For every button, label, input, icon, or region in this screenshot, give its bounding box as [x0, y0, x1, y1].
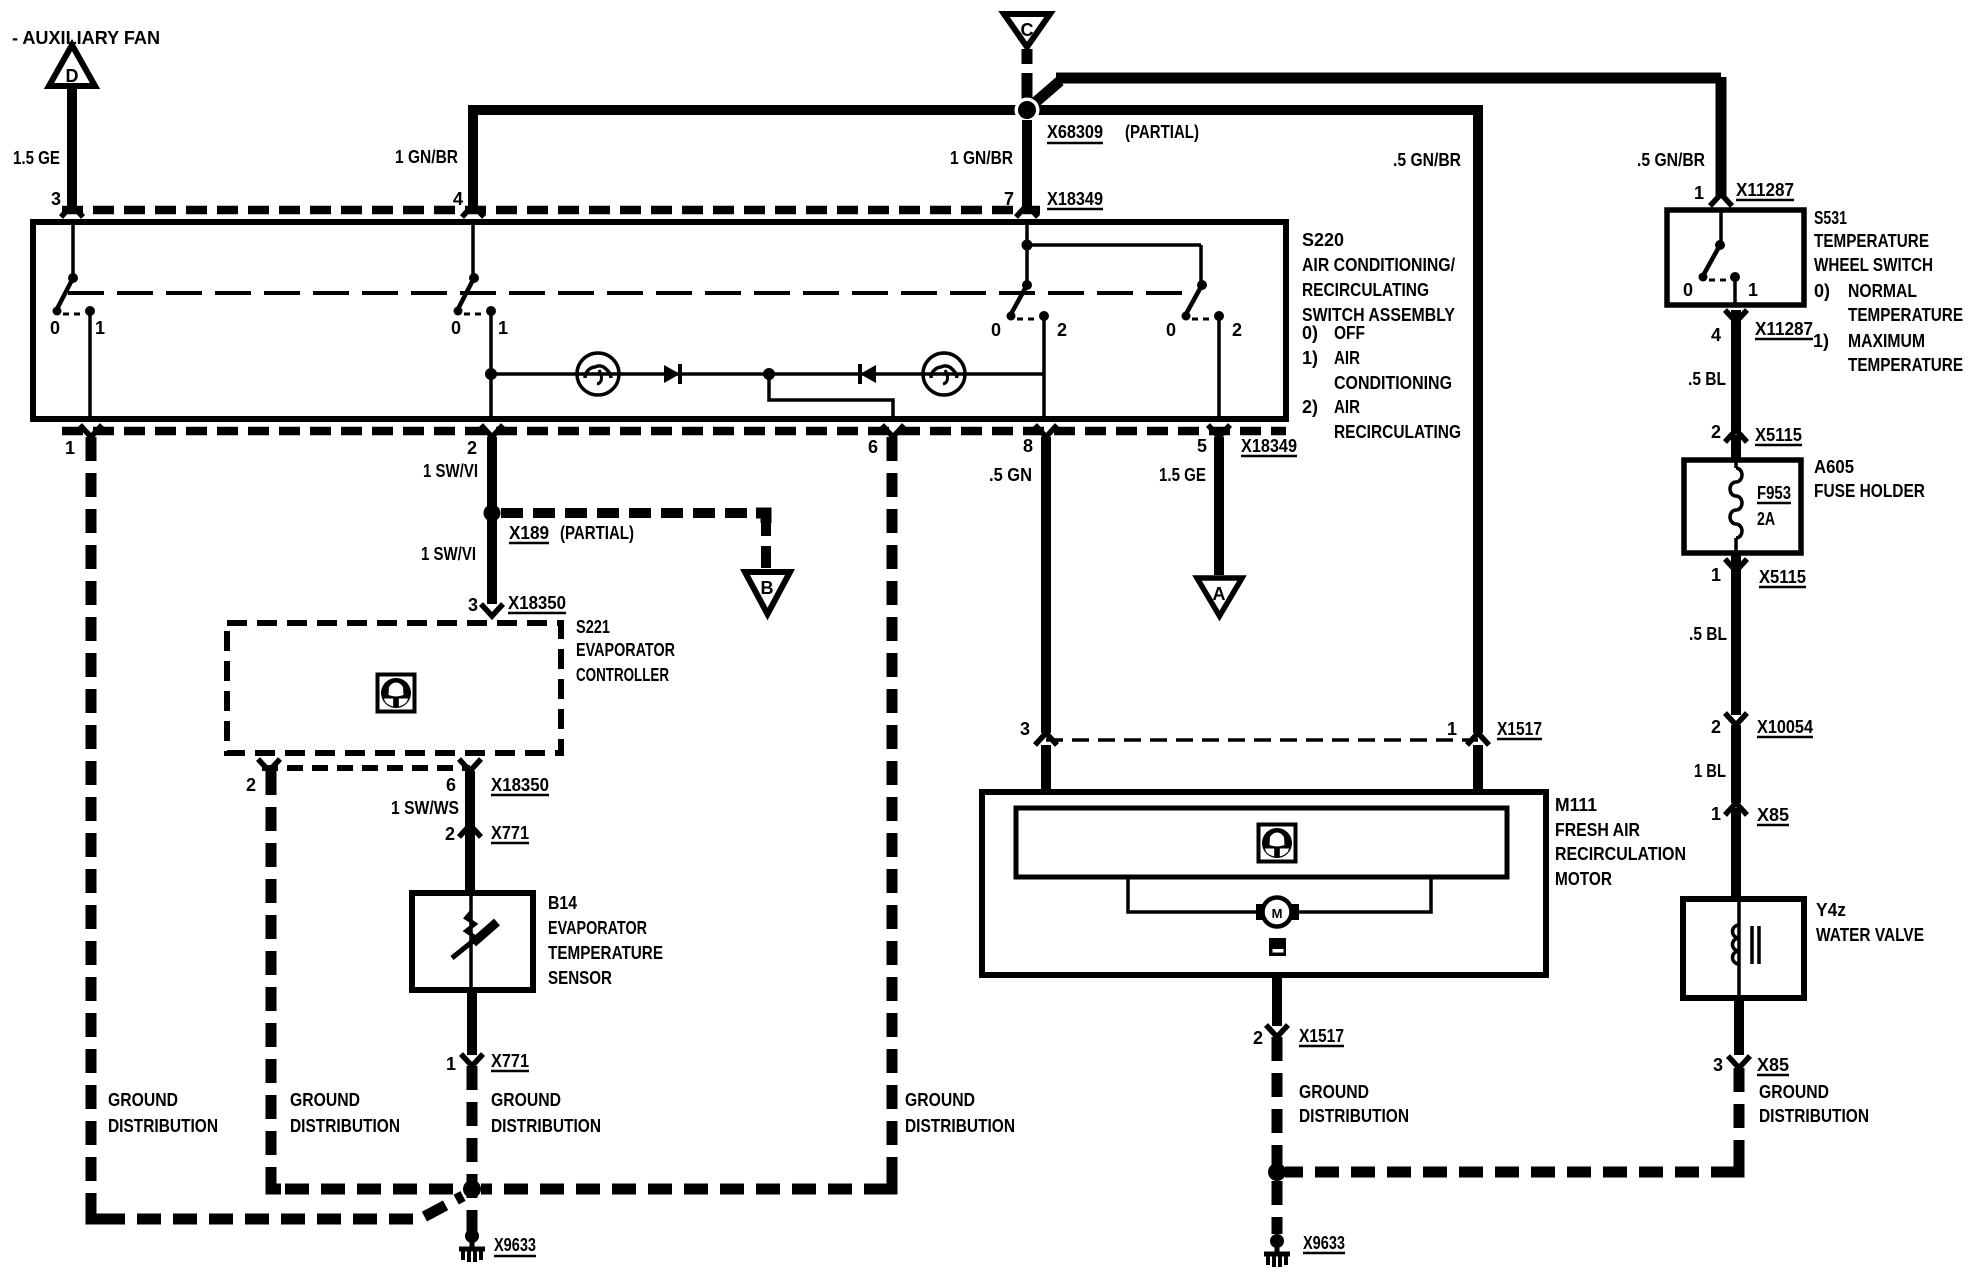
svg-text:5: 5: [1197, 436, 1207, 456]
Y4z solenoid element: [1737, 902, 1741, 995]
svg-text:NORMAL: NORMAL: [1848, 281, 1917, 301]
fan icon M111: [1259, 825, 1296, 862]
switch S220-3 input line: [1025, 225, 1029, 285]
svg-text:GROUND: GROUND: [108, 1090, 178, 1110]
svg-text:WHEEL SWITCH: WHEEL SWITCH: [1814, 255, 1933, 275]
wire contact 2 to pin 5: [1217, 316, 1221, 419]
node inner rail: [1022, 240, 1033, 251]
diode V1: [664, 365, 680, 383]
switch S220-3 lever: [1011, 285, 1027, 314]
svg-text:SWITCH ASSEMBLY: SWITCH ASSEMBLY: [1302, 305, 1455, 325]
ground junction node: [463, 1180, 481, 1198]
B14 internal element: [469, 896, 473, 987]
wire into fuse holder: [1731, 435, 1741, 459]
svg-text:X18350: X18350: [491, 775, 549, 795]
svg-text:2: 2: [1253, 1028, 1263, 1048]
svg-text:X1517: X1517: [1497, 719, 1542, 739]
svg-text:S220: S220: [1302, 230, 1344, 250]
node X189 branch: [484, 505, 501, 522]
svg-text:2): 2): [1302, 397, 1318, 417]
svg-text:.5 BL: .5 BL: [1689, 624, 1727, 644]
svg-text:X1517: X1517: [1299, 1026, 1344, 1046]
svg-text:1: 1: [1447, 719, 1457, 739]
switch S220-4 lever: [1186, 285, 1202, 314]
ground wire corner patch: [1729, 1162, 1739, 1172]
wire 1 GN/BR horizontal run: [473, 110, 1478, 733]
switch S531 contact gap dash: [1709, 279, 1729, 282]
svg-text:EVAPORATOR: EVAPORATOR: [576, 640, 675, 660]
mechanical coupling dashed line: [68, 291, 1190, 295]
svg-text:X68309: X68309: [1047, 122, 1103, 142]
svg-text:DISTRIBUTION: DISTRIBUTION: [290, 1116, 400, 1136]
switch S220-4 contact 2: [1214, 311, 1224, 321]
svg-text:A605: A605: [1814, 457, 1854, 477]
svg-text:TEMPERATURE: TEMPERATURE: [1848, 355, 1963, 375]
svg-text:3: 3: [51, 189, 61, 209]
svg-text:0: 0: [991, 320, 1001, 340]
connector line X1517 top: [1046, 738, 1478, 742]
svg-text:2: 2: [1232, 320, 1242, 340]
switch S220-1 contact 1: [85, 306, 95, 316]
switch S220-1 lever: [57, 278, 73, 309]
svg-text:X9633: X9633: [1303, 1233, 1345, 1253]
wire pin 8 to M111 pin 3: [1041, 437, 1051, 733]
switch S220-3 contact 0: [1007, 312, 1016, 321]
svg-text:1: 1: [95, 318, 105, 338]
svg-text:1 GN/BR: 1 GN/BR: [950, 148, 1013, 168]
wire X5115 to X10054: [1731, 571, 1741, 715]
wire M111 to pin 2 X1517: [1272, 975, 1282, 1026]
svg-text:X85: X85: [1757, 1055, 1789, 1075]
svg-text:S531: S531: [1814, 208, 1847, 228]
diode V2: [858, 364, 862, 384]
wire 1.5 GE: [67, 87, 77, 206]
svg-text:TEMPERATURE: TEMPERATURE: [548, 943, 663, 963]
lamp EL1: [577, 353, 619, 395]
lamp EL2: [923, 353, 965, 395]
svg-text:AIR: AIR: [1334, 348, 1360, 368]
wire contact 1 to pin 2: [489, 311, 493, 419]
ground junction node right: [1268, 1163, 1286, 1181]
fuse element F953: [1730, 468, 1742, 538]
switch S220-4 contact 0: [1182, 312, 1191, 321]
svg-text:1: 1: [1694, 183, 1704, 203]
svg-text:6: 6: [446, 775, 456, 795]
switch S220-2 contact 0: [454, 307, 463, 316]
svg-text:X10054: X10054: [1757, 717, 1813, 737]
switch S531 input line: [1719, 212, 1723, 245]
node X68309 junction: [1015, 98, 1040, 123]
svg-text:0): 0): [1814, 281, 1830, 301]
wire pin 6 to X771: [465, 771, 475, 838]
svg-text:1: 1: [1711, 804, 1721, 824]
wire X189 branch dashed: [501, 513, 766, 568]
fuse holder A605 box: [1684, 460, 1801, 553]
temperature wheel switch S531 box: [1667, 210, 1804, 305]
svg-text:.5 GN/BR: .5 GN/BR: [1393, 150, 1461, 170]
svg-text:X11287: X11287: [1736, 180, 1794, 200]
connector line X18349 top: [62, 206, 1040, 215]
svg-text:GROUND: GROUND: [1759, 1082, 1829, 1102]
switch S220-4 pivot: [1197, 280, 1207, 290]
switch S220-2 lever: [458, 278, 474, 309]
svg-text:MAXIMUM: MAXIMUM: [1848, 331, 1925, 351]
ground terminal X9633 left: [459, 1229, 485, 1262]
svg-text:.5 GN/BR: .5 GN/BR: [1637, 150, 1705, 170]
svg-text:OFF: OFF: [1334, 323, 1365, 343]
switch S531 contact 0: [1699, 273, 1708, 282]
wire C to node: [1022, 49, 1033, 106]
svg-text:0: 0: [451, 318, 461, 338]
svg-text:(PARTIAL): (PARTIAL): [1125, 122, 1199, 142]
svg-text:X18350: X18350: [508, 593, 566, 613]
svg-text:AIR CONDITIONING/: AIR CONDITIONING/: [1302, 255, 1455, 275]
svg-text:3: 3: [468, 595, 478, 615]
switch S220-2 pivot: [469, 273, 479, 283]
svg-text:1.5 GE: 1.5 GE: [1159, 465, 1206, 485]
svg-text:GROUND: GROUND: [290, 1090, 360, 1110]
svg-text:2: 2: [1057, 320, 1067, 340]
svg-text:F953: F953: [1757, 483, 1791, 503]
svg-text:TEMPERATURE: TEMPERATURE: [1848, 305, 1963, 325]
wire Y4z to pin 3 X85: [1734, 995, 1744, 1055]
fan icon S221: [378, 675, 415, 712]
svg-text:.5 BL: .5 BL: [1688, 369, 1726, 389]
switch S220-4 contact gap dash: [1192, 318, 1213, 321]
wire X85 to Y4z: [1731, 808, 1741, 899]
switch S220-3 pivot: [1022, 280, 1032, 290]
wire inner rail: [1027, 243, 1201, 247]
switch S220-2 contact 1: [486, 306, 496, 316]
svg-text:1): 1): [1813, 331, 1829, 351]
off-page connector D: [49, 45, 95, 86]
wire B14 to X771 pin 1: [467, 990, 477, 1055]
svg-text:0): 0): [1302, 323, 1318, 343]
ground wire from pin 1 X771: [467, 1066, 478, 1232]
svg-text:M111: M111: [1555, 795, 1597, 815]
ground wire from pin 1 S220: [91, 437, 463, 1219]
svg-text:X9633: X9633: [494, 1235, 536, 1255]
node lamp branch: [485, 368, 497, 380]
off-page connector C: [1004, 14, 1050, 47]
switch S220-1 input line: [71, 225, 75, 278]
wire contact 1 to pin 1: [88, 311, 92, 419]
svg-text:GROUND: GROUND: [1299, 1082, 1369, 1102]
wire step to pin 6: [769, 374, 893, 419]
switch assembly S220 box: [33, 222, 1286, 419]
ground wire from pin 6 S220: [481, 437, 892, 1189]
evaporator controller S221 dashed box: [227, 623, 561, 753]
svg-text:B14: B14: [548, 893, 577, 913]
svg-text:EVAPORATOR: EVAPORATOR: [548, 918, 647, 938]
switch S220-1 contact gap dash: [63, 313, 84, 316]
node step branch: [763, 368, 775, 380]
svg-text:1 SW/VI: 1 SW/VI: [423, 461, 478, 481]
wire X10054 to X85: [1731, 725, 1741, 803]
svg-text:8: 8: [1023, 436, 1033, 456]
svg-text:2: 2: [1711, 717, 1721, 737]
svg-text:M: M: [1272, 906, 1283, 921]
svg-text:FRESH AIR: FRESH AIR: [1555, 820, 1640, 840]
connector line X18349 bottom: [62, 427, 1286, 436]
water valve Y4z box: [1683, 899, 1804, 998]
svg-text:2: 2: [1711, 422, 1721, 442]
svg-text:DISTRIBUTION: DISTRIBUTION: [491, 1116, 601, 1136]
svg-text:X189: X189: [509, 523, 549, 543]
switch S220-4 input line: [1199, 245, 1203, 285]
svg-text:GROUND: GROUND: [491, 1090, 561, 1110]
svg-text:1 SW/VI: 1 SW/VI: [421, 544, 476, 564]
svg-text:X18349: X18349: [1241, 436, 1297, 456]
limit switch symbol: [1269, 938, 1286, 956]
svg-text:SENSOR: SENSOR: [548, 968, 612, 988]
svg-text:2: 2: [445, 824, 455, 844]
svg-text:1: 1: [498, 318, 508, 338]
svg-text:DISTRIBUTION: DISTRIBUTION: [905, 1116, 1015, 1136]
wire pin 5 to connector A: [1214, 437, 1224, 575]
svg-text:MOTOR: MOTOR: [1555, 869, 1612, 889]
svg-text:2A: 2A: [1757, 509, 1775, 529]
svg-text:C: C: [1021, 20, 1034, 40]
svg-text:1.5 GE: 1.5 GE: [13, 148, 60, 168]
svg-text:GROUND: GROUND: [905, 1090, 975, 1110]
M111 inner box: [1016, 808, 1507, 877]
svg-text:4: 4: [1711, 325, 1721, 345]
fresh air recirculation motor M111 box: [982, 792, 1546, 975]
svg-text:0: 0: [1166, 320, 1176, 340]
wire contact 1 to pin 4: [1733, 277, 1737, 305]
svg-text:3: 3: [1713, 1055, 1723, 1075]
svg-text:Y4z: Y4z: [1816, 900, 1846, 920]
svg-text:.5 GN: .5 GN: [989, 465, 1032, 485]
svg-text:RECIRCULATING: RECIRCULATING: [1334, 422, 1461, 442]
svg-text:FUSE HOLDER: FUSE HOLDER: [1814, 481, 1925, 501]
svg-text:1 BL: 1 BL: [1694, 761, 1726, 781]
svg-text:1 GN/BR: 1 GN/BR: [395, 147, 458, 167]
svg-text:RECIRCULATION: RECIRCULATION: [1555, 844, 1686, 864]
switch S531 pivot: [1715, 240, 1725, 250]
switch S220-1 contact 0: [53, 307, 62, 316]
wire fuse to pin 1 X5115: [1734, 538, 1738, 552]
connector line X18350 bottom: [262, 765, 470, 771]
wire lamp rail: [491, 372, 1044, 376]
svg-text:X771: X771: [491, 1051, 529, 1071]
svg-text:0: 0: [1683, 280, 1693, 300]
svg-text:X5115: X5115: [1755, 425, 1802, 445]
wire pin 2 down: [487, 437, 497, 604]
switch S531 contact 1: [1730, 272, 1740, 282]
svg-text:DISTRIBUTION: DISTRIBUTION: [1299, 1106, 1409, 1126]
ground wire from pin 2 X1517: [1272, 1037, 1283, 1234]
wire .5 GN/BR diagonal and top run: [1030, 77, 1721, 197]
svg-text:1: 1: [1748, 280, 1758, 300]
svg-text:B: B: [761, 578, 774, 598]
motor M: [1256, 904, 1267, 920]
svg-text:D: D: [66, 66, 79, 86]
svg-text:1: 1: [1711, 565, 1721, 585]
svg-text:DISTRIBUTION: DISTRIBUTION: [108, 1116, 218, 1136]
wire pin 1 into M111: [1473, 745, 1483, 792]
switch S220-3 contact gap dash: [1017, 318, 1038, 321]
svg-text:3: 3: [1020, 719, 1030, 739]
evaporator temperature sensor B14 box: [412, 893, 533, 990]
svg-text:1): 1): [1302, 348, 1318, 368]
svg-text:RECIRCULATING: RECIRCULATING: [1302, 280, 1429, 300]
svg-text:2: 2: [467, 438, 477, 458]
svg-text:1: 1: [65, 438, 75, 458]
svg-text:6: 6: [868, 437, 878, 457]
wire contact 2 to pin 8: [1042, 316, 1046, 419]
wire pin 3 into M111: [1041, 745, 1051, 792]
svg-text:1: 1: [446, 1054, 456, 1074]
svg-text:X771: X771: [491, 823, 529, 843]
svg-text:- AUXILIARY FAN: - AUXILIARY FAN: [12, 28, 160, 48]
ground wire horizontal right: [1285, 1068, 1739, 1172]
svg-text:X5115: X5115: [1759, 567, 1806, 587]
svg-text:X18349: X18349: [1047, 189, 1103, 209]
switch S531 lever: [1704, 245, 1720, 274]
svg-text:A: A: [1213, 584, 1226, 604]
svg-text:(PARTIAL): (PARTIAL): [560, 523, 634, 543]
wire X771 to B14: [465, 838, 475, 893]
off-page connector A: [1197, 578, 1242, 616]
svg-text:1 SW/WS: 1 SW/WS: [391, 798, 459, 818]
wire pin 7 stub: [1022, 120, 1032, 206]
switch S220-2 input line: [471, 225, 475, 278]
motor feed lines: [1128, 877, 1431, 912]
switch S220-1 pivot: [68, 273, 78, 283]
svg-text:S221: S221: [576, 617, 610, 637]
switch S220-2 contact gap dash: [464, 313, 485, 316]
svg-text:0: 0: [50, 318, 60, 338]
svg-text:CONTROLLER: CONTROLLER: [576, 665, 669, 685]
off-page connector B: [745, 572, 790, 614]
svg-text:TEMPERATURE: TEMPERATURE: [1814, 231, 1929, 251]
ground wire from pin 2 S221: [271, 771, 463, 1189]
svg-text:X11287: X11287: [1755, 319, 1813, 339]
svg-text:X85: X85: [1757, 805, 1789, 825]
svg-text:AIR: AIR: [1334, 397, 1360, 417]
ground terminal X9633 right: [1264, 1234, 1290, 1267]
svg-text:2: 2: [246, 775, 256, 795]
switch S220-3 contact 2: [1039, 311, 1049, 321]
wire pin 4 to fuse: [1731, 310, 1741, 432]
svg-text:WATER VALVE: WATER VALVE: [1816, 925, 1924, 945]
svg-text:DISTRIBUTION: DISTRIBUTION: [1759, 1106, 1869, 1126]
svg-text:CONDITIONING: CONDITIONING: [1334, 373, 1452, 393]
